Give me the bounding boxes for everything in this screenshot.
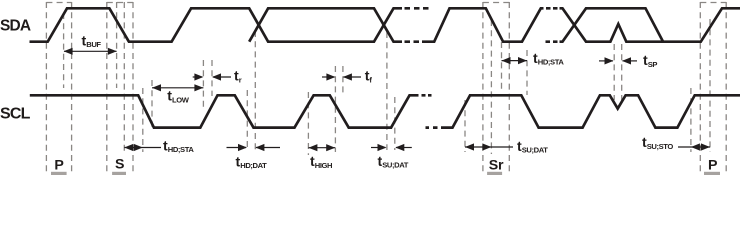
Sr box bottom bar: [487, 172, 502, 175]
ref line SDA fall 30% (tHD;STA2 start): [501, 42, 503, 90]
arrow shaft tHD;DAT left: [227, 147, 247, 149]
ref line tSP left: [613, 44, 615, 100]
ref line SCL fall 30% (tf end): [342, 66, 344, 96]
S box bottom bar: [112, 172, 126, 175]
ref line tBUF end (SDA fall 70%): [116, 2, 118, 88]
arrowhead tLOW left: [152, 84, 161, 91]
ref line SDA crossing (tSU;DAT start): [386, 32, 388, 150]
SCL low dashes at break: [426, 126, 446, 129]
repeated START box Sr top edge: [483, 2, 509, 4]
arrowhead tr right: [212, 73, 221, 80]
arrowhead tBUF right: [108, 48, 117, 55]
SDA X3 fall low rail with spike and final STOP rise: [560, 8, 740, 41]
SDA high rail dashes at break: [405, 7, 429, 10]
arrow shaft tSU;STO leader: [678, 146, 710, 148]
ref line SCL rise 70% (tr end): [211, 60, 213, 96]
SDA waveform main line: [30, 8, 403, 41]
STOP box P1 top edge: [46, 2, 71, 4]
svg-text:P: P: [54, 157, 63, 173]
svg-text:S: S: [115, 157, 124, 173]
ref line SCL fall 30% (tLOW start): [151, 80, 153, 128]
arrowhead tHIGH left: [308, 144, 317, 151]
arrowhead tSP right: [622, 57, 631, 64]
arrowhead tSU;STO right: [701, 143, 710, 150]
SCL high dashes at break: [422, 94, 432, 97]
arrow shaft tSP right: [623, 60, 638, 62]
arrow shaft tBUF: [64, 50, 117, 52]
arrowhead tSP left: [605, 57, 614, 64]
arrowhead tHD;DAT right: [255, 144, 264, 151]
arrow shaft tf right: [344, 76, 362, 78]
ref line SCL fall 70% (tHD;STA end): [142, 88, 144, 152]
STOP box P1 right edge: [71, 2, 73, 172]
ref line tSP right: [621, 44, 623, 100]
SDA high rail dashes before X3: [546, 7, 558, 10]
P1 box bottom bar: [51, 172, 67, 175]
arrowhead tBUF left: [64, 48, 73, 55]
arrowhead tf right: [343, 73, 352, 80]
arrowhead tSU;DAT right: [395, 144, 404, 151]
arrow shaft tr left: [193, 76, 202, 78]
svg-text:SCL: SCL: [0, 106, 31, 123]
arrowhead tSU;STO left: [691, 143, 700, 150]
arrow shaft tHD;DAT right: [256, 147, 280, 149]
ref line tBUF start (SDA rise 70%): [63, 13, 65, 88]
ref line SCL fall 70% (tHD;STA2 end): [526, 50, 528, 95]
repeated START box Sr left edge: [482, 2, 484, 172]
ref line SCL fall 70% (tHIGH end, tf start): [334, 66, 336, 152]
arrowhead tSU;DAT left: [378, 144, 387, 151]
arrowhead tHD;STA right: [134, 144, 143, 151]
START box S top edge: [107, 2, 133, 4]
arrowhead tr left: [194, 73, 203, 80]
arrowhead tSU;DAT2 left: [465, 143, 474, 150]
arrowhead tHD;STA2 left: [502, 57, 511, 64]
ref line SCL fall 30% (tHD;DAT start): [246, 90, 248, 150]
SDA low rail dashes at break: [405, 40, 420, 43]
arrow shaft tSU;DAT right: [396, 147, 412, 149]
SDA crossing X1 rise and top rail: [249, 8, 402, 41]
arrowhead tHD;STA2 right: [518, 57, 527, 64]
arrow shaft tSP left: [599, 60, 613, 62]
repeated START box Sr right edge: [508, 2, 510, 172]
arrow shaft tSU;DAT left: [371, 147, 386, 149]
START box S left edge: [106, 2, 108, 172]
ref line SCL rise 70% (tSU;STO start): [690, 88, 692, 152]
arrowhead tHD;STA left: [124, 144, 133, 151]
arrowhead tSU;DAT2 right: [482, 143, 491, 150]
arrow shaft tr right: [213, 76, 231, 78]
svg-text:Sr: Sr: [489, 157, 504, 173]
arrow shaft tHD;STA leader: [124, 147, 161, 149]
ref line SDA valid (tSU;DAT2 start): [464, 100, 466, 152]
svg-text:P: P: [708, 158, 717, 174]
ref line SDA fall 30% (tHD;STA start): [123, 2, 125, 152]
STOP box P2 left edge: [699, 2, 701, 172]
arrow shaft tLOW: [152, 87, 203, 89]
SCL waveform right part with notch: [446, 95, 740, 127]
arrowhead tHIGH right: [326, 144, 335, 151]
arrowhead tf left: [326, 73, 335, 80]
arrowhead tLOW right: [194, 84, 203, 91]
START box S right edge: [132, 2, 134, 172]
SCL waveform left part: [30, 95, 419, 127]
arrow shaft tHD;STA2: [502, 60, 528, 62]
ref line SDA fall 70% (tSU;DAT2 end): [490, 20, 492, 154]
P2 box bottom bar: [704, 172, 720, 175]
SDA resume after break: [422, 8, 544, 41]
arrowhead tHD;DAT left: [238, 144, 247, 151]
svg-text:SDA: SDA: [0, 18, 31, 35]
ref line SDA rise 30% (tSU;STO end): [709, 19, 711, 152]
arrow shaft tHIGH: [308, 147, 335, 149]
SDA X3 rise top rail and fall into ack: [560, 8, 664, 41]
STOP box P2 top edge: [700, 2, 726, 4]
STOP box P1 left edge: [45, 2, 47, 172]
ref line SCL rise 30% (tSU;DAT end): [394, 97, 396, 150]
arrow shaft tf left: [322, 76, 335, 78]
arrow shaft tSU;DAT2 with leader: [465, 146, 513, 148]
STOP box P2 right edge: [725, 2, 727, 172]
ref line SCL rise 70% (tHIGH start): [307, 92, 309, 155]
SDA low rail dashes before X3: [546, 40, 558, 43]
ref line SCL rise 30% (tLOW end, tr start): [202, 60, 204, 110]
ref line SDA change (tHD;DAT end): [254, 31, 256, 150]
